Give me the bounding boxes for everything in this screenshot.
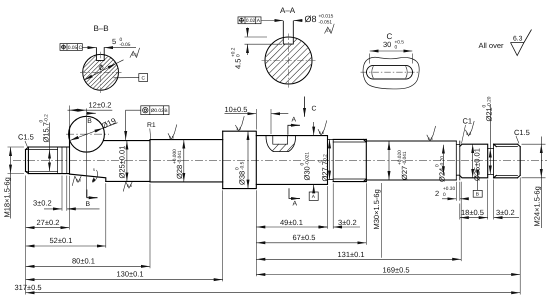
svg-text:Ø25±0.01: Ø25±0.01	[473, 148, 482, 181]
dim 169±0.5	[257, 274, 521, 276]
dim dia25R vertical	[472, 144, 474, 177]
section circle hatch	[83, 55, 118, 90]
marker B bottom	[87, 190, 98, 198]
dim dia24 vertical	[442, 145, 444, 175]
svg-text:Ø27: Ø27	[400, 166, 409, 180]
svg-text:5: 5	[112, 37, 116, 46]
svg-text:10±0.5: 10±0.5	[225, 105, 248, 114]
rough cone bottom (flipped)	[72, 176, 81, 186]
datum B box on dia25R	[477, 178, 479, 190]
svg-text:6.3: 6.3	[132, 53, 137, 57]
datum A box on dia30	[313, 185, 315, 192]
dim 10±0.5 top	[225, 113, 257, 115]
svg-text:0: 0	[120, 37, 123, 43]
svg-text:30: 30	[383, 40, 391, 49]
svg-text:C1.5: C1.5	[514, 128, 530, 137]
svg-text:6.3: 6.3	[513, 36, 523, 43]
ext 67±0.5 at M30 end	[365, 183, 367, 244]
slot centerline	[361, 71, 419, 73]
svg-text:2: 2	[435, 189, 439, 198]
svg-text:5: 5	[93, 168, 95, 172]
svg-text:-0.051: -0.051	[319, 20, 333, 26]
ext 3±0.2 dia21 groove right	[493, 180, 495, 220]
dim 4.5 keyway depth	[245, 37, 283, 44]
cone bottom edge to dia25 journal	[70, 174, 106, 181]
marker A top	[288, 125, 300, 135]
text dia38 rotated with tolerance	[234, 161, 246, 185]
text dia21 rotated with tolerance	[481, 96, 493, 121]
dim dia25L vertical	[126, 141, 128, 181]
ext 49/67/131/169 at dia38 right	[255, 190, 257, 276]
svg-text:18±0.5: 18±0.5	[461, 208, 484, 217]
threaded section M30x1.5	[333, 139, 366, 181]
relief groove dia27.7	[328, 136, 334, 185]
svg-text:B: B	[87, 118, 92, 125]
dim dia38 vertical	[247, 131, 249, 188]
svg-text:C: C	[312, 106, 317, 113]
svg-text:0: 0	[395, 45, 398, 51]
svg-text:M18×1.5-6g: M18×1.5-6g	[3, 177, 12, 217]
ext 80±0.1 at dia25/dia28 step	[149, 184, 151, 269]
text dia27.7 rotated with tolerance	[317, 154, 329, 182]
dia27 long section	[366, 141, 456, 180]
cutting plane B-B vertical line	[86, 109, 88, 198]
section circle outline	[265, 37, 312, 84]
svg-text:-0.041: -0.041	[402, 151, 408, 165]
svg-text:27±0.2: 27±0.2	[37, 218, 60, 227]
outline layer	[26, 116, 521, 188]
cam ball circle dia19	[69, 116, 105, 152]
svg-text:12±0.2: 12±0.2	[89, 101, 112, 110]
svg-text:All over: All over	[479, 41, 505, 50]
dim dia30 vertical outside arrows	[313, 122, 315, 135]
dim dia21 vertical	[489, 104, 491, 149]
svg-text:-0.20: -0.20	[486, 96, 492, 107]
step to dia38 collar	[222, 131, 224, 188]
feature control frame (position 0.05 C)	[60, 44, 82, 51]
svg-text:169±0.5: 169±0.5	[383, 266, 410, 275]
svg-text:0.8: 0.8	[169, 135, 174, 139]
svg-text:A: A	[257, 18, 261, 24]
svg-text:Ø38: Ø38	[238, 171, 247, 185]
rough dia38 top	[235, 116, 244, 131]
thread minor diameter lines M24	[496, 147, 517, 176]
dim M24 vertical	[540, 144, 542, 177]
svg-text:M24×1.5-6g: M24×1.5-6g	[533, 186, 542, 226]
dim 3±0.2 relief groove	[318, 226, 327, 228]
svg-text:C: C	[142, 75, 146, 81]
svg-text:3±0.2: 3±0.2	[338, 218, 357, 227]
svg-text:0.02: 0.02	[246, 18, 256, 24]
dim dia27.7 inside arrows	[329, 140, 331, 180]
svg-text:R1: R1	[147, 122, 156, 129]
svg-text:3±0.2: 3±0.2	[33, 199, 52, 208]
dim dia8 keyway width	[262, 20, 303, 22]
dia28 section	[150, 140, 223, 182]
ext M18 horizontals	[8, 146, 25, 148]
dim 130±0.1	[26, 279, 223, 281]
dim dia15.7 vertical	[49, 123, 51, 150]
svg-text:130±0.1: 130±0.1	[117, 270, 144, 279]
dim 5 0/-0.05 keyway width	[83, 47, 137, 49]
step M30 to dia27	[365, 139, 367, 181]
left face extension down (common origin)	[25, 176, 27, 295]
svg-text:-0.2: -0.2	[43, 114, 49, 123]
ext ball shoulder / 27±0.2 / 12±0.2	[68, 106, 70, 129]
svg-text:B: B	[164, 108, 167, 114]
top edge junction ball to dia25	[104, 140, 150, 142]
ext 49 / 3±0.2 groove at dia30 right	[327, 186, 329, 229]
keyway notch white-out	[96, 46, 104, 60]
svg-text:0: 0	[443, 192, 446, 198]
svg-text:4.5: 4.5	[234, 59, 243, 69]
groove 2mm dia24	[456, 141, 460, 180]
dim 52±0.1	[26, 245, 106, 247]
dia30 section	[256, 136, 327, 185]
detail C arrow	[304, 97, 306, 117]
roughness symbol on 5 dim	[130, 48, 140, 58]
dim 27±0.2	[26, 227, 69, 229]
svg-text:-0.20: -0.20	[439, 156, 445, 167]
rough dia27 top	[427, 126, 436, 141]
svg-text:C: C	[79, 45, 83, 51]
text dia25 left rotated	[118, 146, 127, 179]
text dia30 rotated with tolerance	[299, 152, 311, 181]
dim dia19 ball diagonal	[70, 128, 103, 140]
svg-text:3.2: 3.2	[326, 29, 331, 33]
marker B top	[87, 112, 96, 114]
dia25 left journal bottom	[106, 180, 150, 182]
dia38 collar	[223, 131, 257, 188]
svg-text:-0.021: -0.021	[304, 152, 310, 166]
svg-text:B–B: B–B	[94, 24, 109, 33]
circle centerlines	[262, 34, 316, 90]
dim 3±0.2 thread undercut	[44, 208, 62, 210]
rough dia25L bottom (flipped)	[123, 182, 132, 192]
thread end / undercut groove verticals	[58, 147, 67, 174]
svg-text:A: A	[312, 194, 316, 200]
dia25 right journal with C1 chamfer	[460, 144, 488, 178]
svg-text:-0.2: -0.2	[322, 154, 328, 163]
keyway slot outline	[283, 21, 293, 44]
svg-text:Ø24: Ø24	[438, 168, 447, 182]
svg-text:Ø25±0.01: Ø25±0.01	[118, 146, 127, 179]
svg-text:M30×1.5-6g: M30×1.5-6g	[372, 189, 381, 229]
dim 12±0.2 top	[68, 109, 113, 111]
thread minor diameter lines M18	[26, 150, 58, 172]
dim 2+0.30 groove	[442, 198, 456, 200]
feature control frame (symmetry 0.02 A)	[238, 17, 261, 24]
dim 317±0.5 overall	[26, 292, 520, 294]
threaded section M24x1.5 right end	[494, 144, 521, 178]
svg-text:-0.05: -0.05	[120, 42, 131, 48]
svg-text:0.8: 0.8	[319, 131, 324, 135]
svg-text:131±0.1: 131±0.1	[338, 250, 365, 259]
svg-text:0.8: 0.8	[127, 184, 132, 188]
ext right end face long (169 & 317)	[519, 178, 521, 295]
text M30x1.5-6g rotated	[372, 189, 381, 229]
dim 80±0.1	[26, 265, 150, 267]
svg-text:-0.041: -0.041	[177, 150, 183, 164]
svg-text:Ø15.7: Ø15.7	[42, 122, 51, 142]
svg-text:80±0.1: 80±0.1	[72, 257, 95, 266]
svg-text:3±0.2: 3±0.2	[496, 208, 515, 217]
svg-text:C1: C1	[463, 117, 473, 126]
ext 10±0.5 above dia38 right / keyway	[255, 109, 257, 130]
text M24x1.5-6g rotated	[533, 186, 542, 226]
svg-text:A–A: A–A	[280, 6, 296, 15]
text dia25 right rotated	[473, 148, 482, 181]
dim M18 vertical	[10, 147, 12, 173]
thread minor diameter lines M30	[333, 142, 366, 179]
ext M24 horizontals	[522, 143, 546, 145]
taper angle leader	[92, 170, 97, 182]
cam ball shoulder vertical	[69, 129, 71, 175]
svg-text:0.8: 0.8	[466, 132, 471, 136]
svg-text:Ø: Ø	[98, 64, 106, 72]
svg-text:A: A	[293, 201, 298, 208]
text dia15.7 rotated with tolerance	[38, 114, 50, 143]
section circle outline	[83, 54, 119, 90]
text dia27 rotated with tolerance	[397, 150, 409, 180]
marker A bottom	[289, 188, 300, 198]
rough dia25R chamfer	[465, 121, 474, 136]
roughness under dia8	[325, 24, 335, 34]
svg-text:0.8: 0.8	[76, 178, 81, 182]
svg-text:-0.5: -0.5	[239, 161, 245, 170]
svg-text:Ø30: Ø30	[303, 166, 312, 180]
svg-text:B: B	[86, 201, 91, 208]
keyway slot outline	[96, 47, 104, 60]
dim 67±0.5	[257, 242, 367, 244]
ext thread undercut 3±0.2	[61, 176, 63, 211]
svg-text:Ø8: Ø8	[305, 14, 317, 24]
concentricity FCF with leader	[141, 106, 169, 115]
text M18x1.5-6g rotated	[3, 177, 12, 217]
svg-text:Ø28: Ø28	[175, 165, 184, 179]
svg-text:C1.5: C1.5	[18, 133, 34, 142]
svg-text:0: 0	[235, 54, 241, 57]
main shaft centerline	[13, 134, 547, 160]
end-mill arcs	[372, 66, 408, 78]
dim dia27 vertical	[388, 141, 390, 180]
dim dia28 vertical	[183, 140, 185, 182]
svg-text:Ø27.7: Ø27.7	[321, 161, 330, 181]
dim 3±0.2 dia21 groove	[494, 217, 519, 219]
datum C box with leader	[139, 74, 148, 82]
rough dia28 top	[168, 125, 177, 140]
ext 130±0.1 at dia38 left	[222, 190, 224, 281]
svg-text:A: A	[292, 117, 297, 124]
svg-text:317±0.5: 317±0.5	[15, 283, 42, 292]
svg-text:B: B	[476, 192, 479, 198]
dim 131±0.1	[257, 258, 462, 260]
ext 2mm groove	[455, 182, 457, 201]
svg-text:+0.015: +0.015	[319, 14, 334, 20]
dim 49±0.1	[257, 226, 328, 228]
text dia28 rotated with tolerance	[172, 149, 184, 179]
hatch inside keyway slot band	[272, 144, 294, 152]
ext 52±0.1 at cone end	[105, 183, 107, 248]
svg-text:52±0.1: 52±0.1	[50, 236, 73, 245]
svg-text:3.2: 3.2	[236, 127, 241, 131]
svg-text:67±0.5: 67±0.5	[293, 233, 316, 242]
svg-text:Ø0.02: Ø0.02	[151, 108, 164, 114]
ext 18±0.5 dia25R left & right	[459, 204, 461, 220]
section circle hatch	[266, 38, 312, 84]
freeform break-line blob	[363, 57, 419, 89]
circle centerlines	[80, 52, 122, 93]
cam ball centerline horizontal	[66, 133, 109, 135]
rough dia27.7 groove	[318, 120, 327, 135]
threaded section M18x1.5 left end	[26, 147, 70, 174]
keyway notch white-out	[283, 20, 293, 45]
text dia24 rotated with tolerance	[434, 156, 446, 182]
svg-text:+0.30: +0.30	[443, 186, 455, 192]
svg-text:0.8: 0.8	[428, 137, 433, 141]
diagonal diameter dim in section	[84, 64, 116, 81]
svg-text:49±0.1: 49±0.1	[280, 218, 303, 227]
svg-text:Ø21: Ø21	[485, 107, 494, 121]
step dia25/dia28	[149, 140, 151, 182]
dim 18±0.5	[460, 217, 488, 219]
keyway slot side view on dia30	[266, 136, 296, 152]
ext 131±0.1 at dia24 groove right	[460, 182, 462, 261]
groove 3mm dia21	[488, 144, 494, 178]
svg-text:0.05: 0.05	[68, 45, 78, 51]
keyway slot rounded	[367, 65, 413, 79]
svg-text:Ø19: Ø19	[100, 116, 118, 131]
text dia19 along diagonal	[100, 116, 118, 131]
